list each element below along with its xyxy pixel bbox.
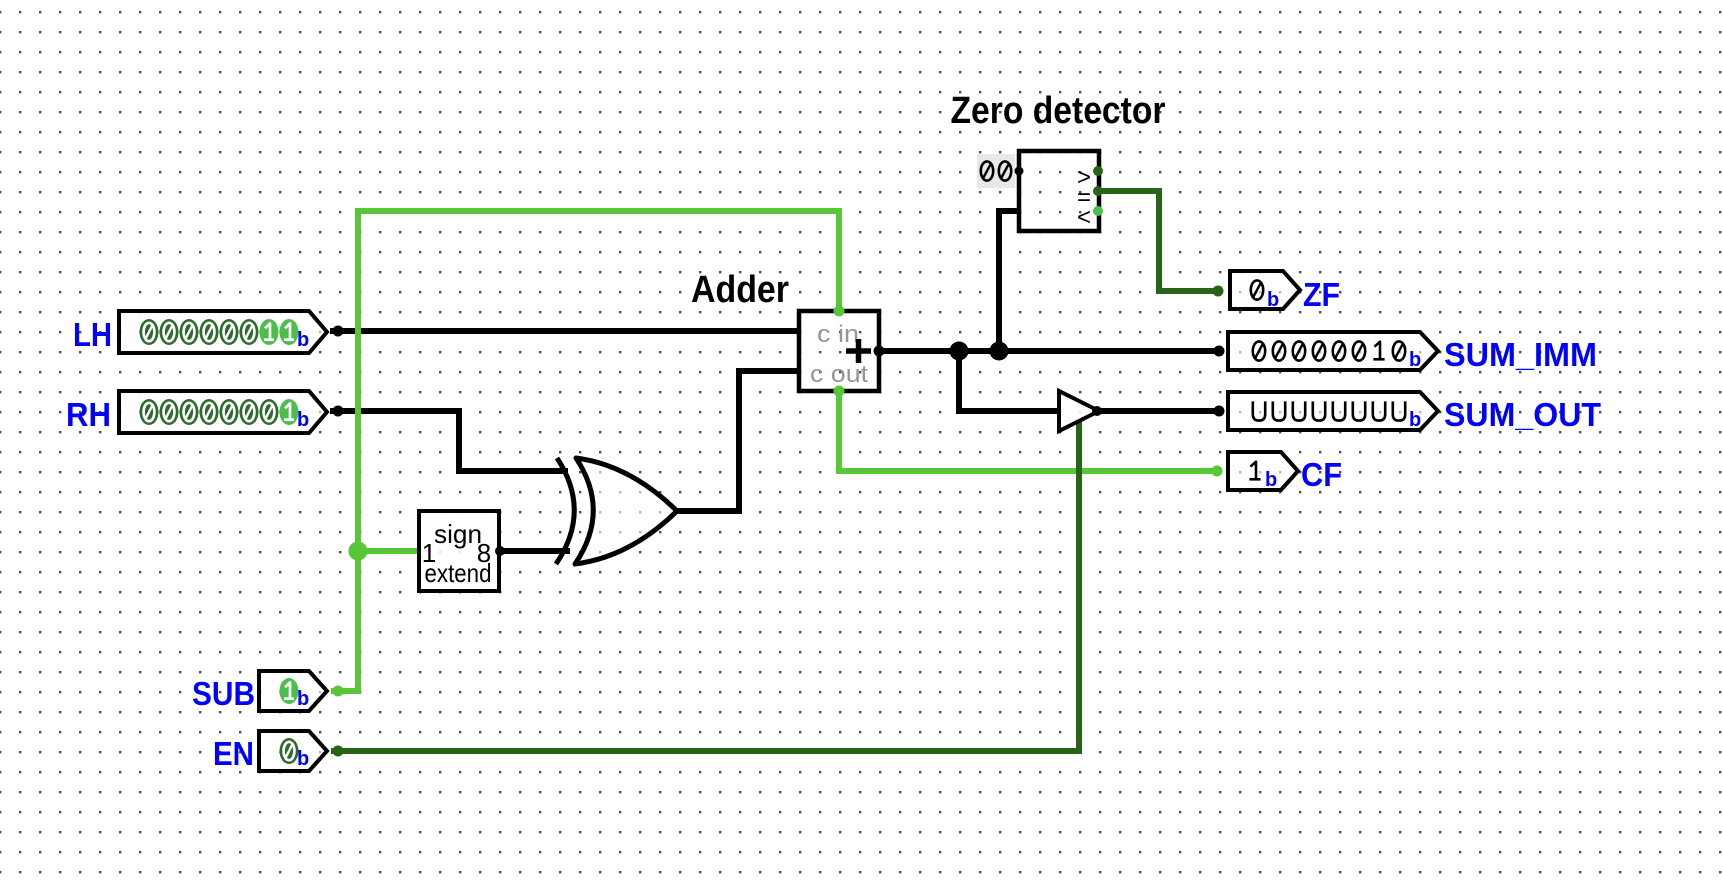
wire SUB high to sign-extend and adder c_in xyxy=(331,211,839,691)
input pin LH value 00000011b xyxy=(73,311,327,353)
wire end dot SUB xyxy=(333,686,344,697)
output pin SUM_IMM value 00000010b xyxy=(1228,332,1597,373)
wire comparator equal output to ZF xyxy=(1099,191,1218,291)
constant 00 xyxy=(977,154,1024,188)
svg-text:RH: RH xyxy=(66,396,111,433)
tri-state buffer xyxy=(1059,391,1099,431)
sign extend box xyxy=(419,511,499,591)
wire EN low to tri-state enable xyxy=(331,421,1079,751)
svg-text:CF: CF xyxy=(1301,456,1342,493)
svg-text:b: b xyxy=(1409,409,1421,431)
adder c_out terminal dot xyxy=(834,386,845,397)
svg-text:b: b xyxy=(1265,469,1277,491)
svg-text:SUB: SUB xyxy=(192,675,255,712)
svg-text:Adder: Adder xyxy=(691,269,789,311)
svg-text:c in: c in xyxy=(817,321,859,348)
input pin RH value 00000001b xyxy=(66,391,327,433)
wire end dot SUM_OUT xyxy=(1214,406,1225,417)
wire adder sum output to SUM_IMM xyxy=(879,348,1219,354)
svg-text:SUM_IMM: SUM_IMM xyxy=(1444,336,1597,373)
adder c_in terminal dot xyxy=(834,306,845,317)
adder sum output terminal dot xyxy=(874,346,885,357)
wire XOR output to adder input b xyxy=(674,371,799,511)
output pin SUM_OUT value UUUUUUUUb xyxy=(1228,392,1601,433)
input pin SUB value 1b xyxy=(192,671,327,712)
comparator equal output dot xyxy=(1093,186,1103,196)
wire end dot CF xyxy=(1212,466,1223,477)
comparator greater output dot xyxy=(1093,166,1103,176)
svg-text:b: b xyxy=(1409,349,1421,371)
svg-text:c out: c out xyxy=(810,361,868,388)
junction node sum/tristate xyxy=(950,342,969,361)
svg-text:Zero detector: Zero detector xyxy=(951,90,1166,132)
xor gate xyxy=(556,458,677,564)
wire end dot LH xyxy=(333,326,344,337)
wire end dot ZF xyxy=(1213,286,1224,297)
wire end dot RH xyxy=(333,406,344,417)
svg-text:EN: EN xyxy=(213,735,254,772)
svg-text:b: b xyxy=(1267,289,1279,311)
wire tri-state output to SUM_OUT xyxy=(1097,408,1219,414)
wire adder c_out to CF xyxy=(839,389,1217,471)
svg-text:b: b xyxy=(297,329,309,351)
output pin CF value 1b xyxy=(1228,452,1342,493)
wire end dot EN xyxy=(333,746,344,757)
sign extend output terminal dot xyxy=(495,546,505,556)
output pin ZF value 0b xyxy=(1230,271,1340,313)
wire sign-extend output to XOR bottom input xyxy=(499,548,570,554)
wire sum to tri-state input xyxy=(959,351,1059,411)
svg-text:8: 8 xyxy=(477,538,491,568)
wire end dot SUM_IMM xyxy=(1214,346,1225,357)
input pin EN value 0b xyxy=(213,731,327,772)
wire RH bus to XOR top input xyxy=(330,411,568,471)
svg-text:LH: LH xyxy=(73,316,112,353)
svg-text:b: b xyxy=(297,688,309,710)
adder U1 xyxy=(799,311,879,391)
svg-text:ZF: ZF xyxy=(1303,276,1340,313)
comparator (zero detector) xyxy=(1019,151,1099,231)
svg-text:b: b xyxy=(297,409,309,431)
wire branch to sign extend input xyxy=(358,548,419,554)
wire sum to comparator input b xyxy=(999,211,1019,351)
tri-state output terminal dot xyxy=(1092,406,1102,416)
svg-text:SUM_OUT: SUM_OUT xyxy=(1444,396,1601,433)
comparator less output dot xyxy=(1093,206,1103,216)
junction node sum/comparator xyxy=(990,342,1009,361)
svg-text:sign: sign xyxy=(434,519,482,549)
svg-text:1: 1 xyxy=(422,538,436,568)
junction node SUB branch xyxy=(349,542,368,561)
svg-text:b: b xyxy=(297,748,309,770)
svg-text:<: < xyxy=(1077,204,1091,231)
wire LH bus to adder input a xyxy=(330,328,799,334)
